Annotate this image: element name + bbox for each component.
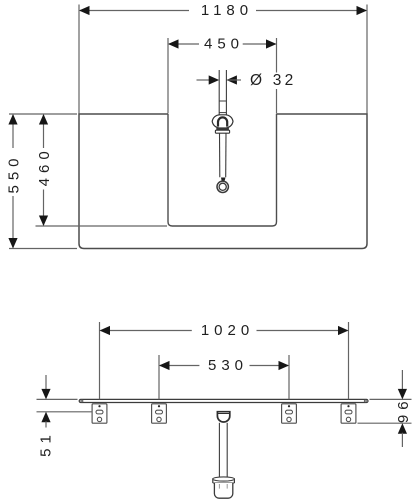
trap inlet cup — [217, 412, 229, 422]
bracket 2 (inner left) — [152, 404, 167, 423]
dim 1180 extension line left — [78, 5, 80, 114]
bracket 3 (inner right) — [282, 404, 297, 423]
dim Ø32 arrow right — [226, 75, 237, 84]
chain ring inner — [219, 183, 226, 190]
dim 1020 extension line left — [99, 322, 101, 399]
dim 530 extension line right — [288, 355, 290, 399]
dim 96 bottom tail — [401, 433, 403, 447]
dim 51 bottom tail — [45, 421, 47, 427]
dim 530 arrow right — [279, 361, 290, 370]
svg-text:96: 96 — [395, 396, 412, 423]
dim 51 arrow top — [41, 389, 50, 400]
dim 450 arrow left — [168, 39, 179, 48]
drain pipe upper — [218, 70, 220, 115]
dim 96 bottom extension line — [358, 422, 412, 424]
dim 550 bottom extension line — [9, 248, 77, 250]
svg-text:460: 460 — [36, 146, 53, 186]
dim 460 line — [43, 115, 45, 148]
dim 1180 arrow right — [357, 6, 368, 15]
trap inlet cap line — [218, 413, 230, 415]
svg-text:51: 51 — [38, 430, 55, 457]
drain tube — [219, 133, 221, 177]
bracket 1 (outer left) — [92, 404, 107, 423]
basin cutout — [168, 114, 277, 226]
console board (slab) — [79, 399, 368, 402]
dim 460 arrow bottom — [39, 216, 48, 227]
dim 1020 arrow right — [338, 326, 349, 335]
dim 51 top tail — [45, 375, 47, 390]
dim 1020 arrow left — [100, 326, 111, 335]
svg-text:1020: 1020 — [201, 322, 254, 339]
dim 96 arrow top — [398, 389, 407, 400]
dim 1180 line — [80, 10, 189, 12]
dim 530 extension line left — [158, 355, 160, 399]
dim 96 arrow bottom — [398, 423, 407, 434]
svg-text:1180: 1180 — [201, 2, 253, 19]
dim 1020 extension line right — [348, 322, 350, 399]
dim 550 line — [12, 115, 14, 148]
dim 450 line — [169, 43, 199, 45]
trap body cup — [214, 483, 232, 498]
dim Ø32 leader left — [197, 79, 211, 81]
dim 450 extension line left — [167, 38, 169, 114]
flange collar white band — [215, 130, 229, 133]
dim 51 top extension line — [37, 398, 78, 400]
chain wedge — [221, 178, 225, 181]
dim 550 arrow bottom — [8, 238, 17, 249]
dim 550 arrow top — [8, 114, 17, 125]
dim 1020 line — [101, 330, 192, 332]
drain pipe sleeve joint — [219, 100, 226, 102]
flange collar dark band — [216, 128, 229, 130]
dim 450 extension line right (broken by Ø32 text) — [276, 38, 278, 73]
dim Ø32 arrow left — [209, 75, 220, 84]
dim 450 arrow right — [266, 39, 277, 48]
dim 1180 arrow left — [79, 6, 90, 15]
slab right end detail — [364, 400, 366, 402]
dim 460 arrow top — [39, 114, 48, 125]
svg-text:450: 450 — [204, 36, 244, 53]
dim 51 arrow bottom — [41, 412, 50, 423]
dim 96 top tail — [401, 370, 403, 390]
tap flange eye — [212, 115, 233, 128]
dim 1180 extension line right — [366, 5, 368, 114]
dim 96 top extension line — [370, 398, 412, 400]
dim 530 line — [160, 365, 199, 367]
dim 550/460 shared top extension line — [9, 113, 77, 115]
trap collar — [213, 479, 235, 483]
svg-text:Ø 32: Ø 32 — [250, 72, 296, 89]
svg-text:530: 530 — [208, 357, 248, 374]
tap flange inner U — [218, 117, 227, 126]
dim 51 bottom extension line — [37, 411, 92, 413]
console outline — [79, 114, 367, 249]
slab left end detail — [81, 400, 83, 402]
dim 460 bottom extension line — [36, 225, 168, 227]
dim 530 arrow left — [159, 361, 170, 370]
dim Ø32 leader right — [226, 79, 241, 81]
trap pipe — [218, 423, 220, 478]
trap body inner pipe hint — [218, 484, 220, 489]
chain ring outer — [217, 181, 228, 192]
bracket 4 (outer right) — [341, 404, 356, 423]
svg-text:550: 550 — [5, 153, 22, 193]
